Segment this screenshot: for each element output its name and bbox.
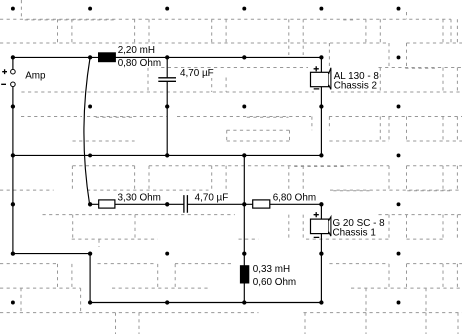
- svg-text:0,80 Ohm: 0,80 Ohm: [118, 58, 161, 69]
- svg-text:Amp: Amp: [25, 70, 46, 81]
- svg-text:2,20 mH: 2,20 mH: [118, 45, 155, 56]
- svg-text:3,30 Ohm: 3,30 Ohm: [118, 193, 161, 204]
- svg-text:Chassis 1: Chassis 1: [333, 227, 377, 238]
- svg-text:4,70 µF: 4,70 µF: [180, 68, 214, 79]
- svg-text:6,80 Ohm: 6,80 Ohm: [273, 193, 316, 204]
- svg-text:Chassis 2: Chassis 2: [334, 80, 377, 91]
- svg-text:0,33 mH: 0,33 mH: [253, 264, 290, 275]
- svg-text:4,70 µF: 4,70 µF: [195, 193, 229, 204]
- svg-text:0,60 Ohm: 0,60 Ohm: [253, 277, 296, 288]
